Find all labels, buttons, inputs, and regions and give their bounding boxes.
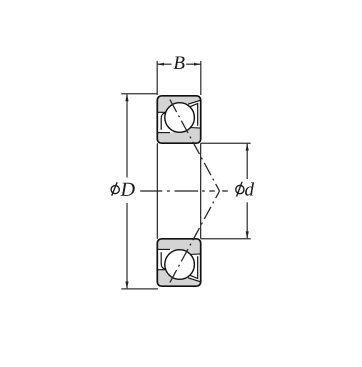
cage right angle xyxy=(190,104,198,126)
inner ring shoulder line left xyxy=(157,132,170,134)
bearing cross-section top half (outer ring, ball, inner ring, cage) xyxy=(157,96,200,143)
outer ring counterbore line right xyxy=(188,100,201,104)
outer ring top gray fill xyxy=(157,96,200,113)
label phid xyxy=(236,182,254,197)
dimension phiD extension lines xyxy=(121,94,158,289)
bearing cross-section bottom half (mirrored) xyxy=(157,239,200,286)
ball xyxy=(165,103,195,133)
bore silhouette line right xyxy=(200,143,202,239)
cage left hook xyxy=(161,113,166,130)
dimension phid extension lines xyxy=(201,143,251,239)
outer ring shoulder line left xyxy=(157,111,166,113)
axis centerline dash-dot xyxy=(140,190,228,192)
dimension B line with arrows xyxy=(157,63,200,65)
ring section outline rounded rect xyxy=(157,96,200,143)
bore silhouette line left xyxy=(156,143,158,239)
inner ring bottom gray fill xyxy=(157,128,200,143)
label B xyxy=(174,56,185,68)
contact angle line top (dash-dot to apex) xyxy=(170,100,220,191)
dimension phiD line with arrows xyxy=(126,94,128,288)
contact angle line bottom (dash-dot to apex) xyxy=(170,191,220,282)
label phiD xyxy=(111,182,135,196)
inner ring shoulder line right xyxy=(190,127,201,130)
dimension B extension lines xyxy=(157,61,201,95)
dimension phid line with arrows xyxy=(246,144,248,239)
